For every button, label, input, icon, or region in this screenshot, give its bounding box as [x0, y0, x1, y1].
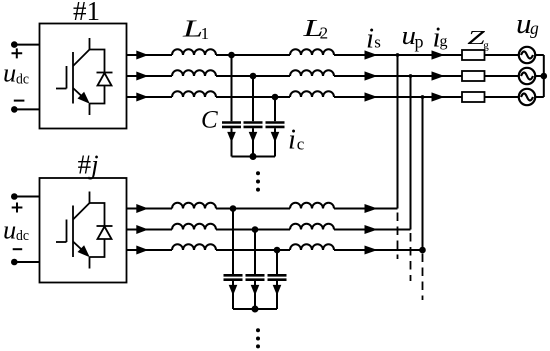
transistor Qj (IGBT in Uj): [56, 192, 90, 269]
node DC+ terminal Uj: [11, 193, 18, 200]
inductor L1 phase B: [172, 70, 216, 76]
wire Uj phase B out: [127, 229, 173, 231]
svg-text:c: c: [297, 134, 305, 153]
wire DC- to Uj: [14, 261, 39, 263]
node cap star point j: [252, 306, 259, 313]
svg-text:g: g: [530, 18, 539, 38]
wire phase C L2 to grid: [334, 96, 462, 98]
wire Z_g to source C: [485, 96, 519, 98]
label i_c: [288, 125, 305, 156]
arrow phase A out of Uj: [136, 204, 148, 213]
wire u_p vertical A: [397, 55, 399, 209]
svg-text:2: 2: [320, 24, 329, 43]
impedance Z_g phase C: [462, 92, 485, 102]
source u_g phase C: [519, 89, 535, 105]
impedance Z_g phase B: [462, 71, 485, 81]
svg-text:u: u: [3, 58, 16, 88]
svg-text:dc: dc: [16, 71, 29, 87]
inductor L1 phase C: [172, 91, 216, 97]
inductor L2 phase C: [290, 91, 334, 97]
label i_g: [433, 22, 448, 54]
wire phase A L1 to L2: [216, 54, 290, 56]
svg-text:i: i: [288, 125, 296, 156]
svg-text:g: g: [440, 33, 448, 50]
ellipsis below capacitor bank j: [256, 328, 260, 348]
arrow i_s phase B: [365, 71, 378, 80]
inductor L2 phase A: [290, 49, 334, 55]
wire DC- to U1: [14, 108, 39, 110]
wire phase A L1j to L2j: [216, 208, 290, 210]
label u_g: [516, 9, 539, 40]
node cap tap B: [250, 73, 257, 80]
inductor L1j phase A: [172, 203, 216, 209]
wire phase A L2 to grid: [334, 54, 462, 56]
arrow phase B out of U1: [136, 72, 148, 81]
arrow i_s phase A: [365, 50, 378, 59]
wire phase C L2j to bus: [334, 249, 423, 251]
wire phase B L2j to bus: [334, 229, 411, 231]
node DC- terminal Uj: [11, 259, 18, 266]
arrow i_s phase C: [365, 92, 378, 101]
label i_s: [366, 23, 381, 55]
wire U1 phase C out: [127, 96, 173, 98]
impedance Z_g phase A: [462, 50, 485, 60]
wire U1 phase B out: [127, 75, 173, 77]
node cap star point: [250, 153, 257, 160]
svg-text:dc: dc: [16, 228, 29, 244]
inductor L2j phase C: [290, 244, 334, 250]
label L1: [182, 16, 210, 44]
arrow phase C out of Uj: [136, 246, 148, 255]
diode Dj (antiparallel in Uj): [90, 203, 113, 257]
arrow i_g phase B: [432, 71, 445, 80]
wire phase C L1 to L2: [216, 96, 290, 98]
inductor L2 phase B: [290, 70, 334, 76]
svg-text:#j: #j: [78, 150, 99, 180]
label u_dc U1: [3, 58, 29, 88]
inductor L1j phase C: [172, 244, 216, 250]
wire cap common bar: [232, 156, 276, 158]
arrow phase A j: [365, 204, 378, 213]
inductor L1j phase B: [172, 224, 216, 230]
node cap tap C: [272, 94, 279, 101]
svg-text:1: 1: [201, 24, 210, 43]
node u_p tap C: [421, 95, 425, 99]
svg-text:#1: #1: [73, 0, 100, 26]
inductor L2j phase B: [290, 224, 334, 230]
svg-text:p: p: [415, 32, 424, 52]
wire source A to neutral bus: [535, 54, 544, 56]
arrow phase B j: [365, 225, 378, 234]
arrow phase B out of Uj: [136, 225, 148, 234]
wire DC+ to Uj: [14, 196, 39, 198]
label Z_g: [467, 27, 489, 51]
node cap tap A j: [230, 205, 237, 212]
wire cap common bar j: [233, 308, 277, 310]
node DC- terminal U1: [11, 106, 18, 113]
capacitor Cj phase A: [224, 209, 243, 310]
wire Uj phase C out: [127, 249, 173, 251]
transistor Q1 (IGBT in U1): [56, 38, 90, 115]
node neutral junction: [541, 73, 548, 80]
wire U1 phase A out: [127, 54, 173, 56]
node u_p tap B: [409, 74, 413, 78]
wire source B to neutral bus: [535, 75, 544, 77]
svg-text:u: u: [3, 214, 16, 244]
minus sign Uj: [13, 248, 23, 250]
source u_g phase A: [519, 47, 535, 63]
svg-text:C: C: [201, 107, 218, 134]
label u_dc Uj: [3, 214, 29, 244]
arrow phase A out of U1: [136, 51, 148, 60]
label #j: [78, 150, 99, 180]
node cap tap C j: [274, 247, 281, 254]
label #1: [73, 0, 100, 26]
wire DC+ to U1: [14, 44, 39, 46]
node corner C j: [419, 247, 426, 254]
inverter U1 box: [40, 24, 127, 129]
inductor L2j phase A: [290, 203, 334, 209]
minus sign U1: [14, 100, 25, 102]
capacitor C phase C: [266, 97, 285, 157]
wire phase A L2j to bus: [334, 208, 398, 210]
svg-text:s: s: [374, 33, 381, 52]
wire Uj phase A out: [127, 208, 173, 210]
ellipsis below capacitor bank: [256, 171, 260, 191]
node cap tap A: [228, 52, 235, 59]
wire u_p vertical C: [422, 97, 424, 250]
wire phase C L1j to L2j: [216, 249, 290, 251]
wire phase B L1j to L2j: [216, 229, 290, 231]
wire dashed continuation A: [397, 213, 399, 260]
svg-text:i: i: [366, 23, 374, 55]
wire Z_g to source B: [485, 75, 519, 77]
capacitor Cj phase B: [246, 230, 265, 310]
node DC+ terminal U1: [11, 41, 18, 48]
arrow i_g phase A: [432, 50, 445, 59]
capacitor C phase B: [244, 76, 263, 157]
wire dashed continuation B: [410, 233, 412, 281]
label C: [201, 107, 218, 134]
inductor L1 phase A: [172, 49, 216, 55]
wire Z_g to source A: [485, 54, 519, 56]
capacitor Cj phase C: [268, 250, 287, 309]
arrow phase C out of U1: [136, 93, 148, 102]
capacitor C phase A: [222, 55, 241, 157]
wire phase B L2 to grid: [334, 75, 462, 77]
wire u_p vertical B: [410, 76, 412, 230]
plus sign U1: [12, 48, 23, 58]
source u_g phase B: [519, 68, 535, 84]
label L2: [302, 15, 328, 42]
node cap tap B j: [252, 226, 259, 233]
node u_p tap A: [396, 53, 400, 57]
arrow i_g phase C: [432, 92, 445, 101]
plus sign Uj: [12, 203, 23, 213]
wire source C to neutral bus: [535, 96, 544, 98]
label u_p: [402, 21, 424, 52]
wire phase B L1 to L2: [216, 75, 290, 77]
wire neutral bus: [543, 55, 545, 97]
arrow phase C j: [365, 246, 378, 255]
diode D1 (antiparallel in U1): [90, 50, 113, 104]
inverter Uj box: [40, 178, 127, 283]
wire dashed continuation C: [422, 254, 424, 301]
